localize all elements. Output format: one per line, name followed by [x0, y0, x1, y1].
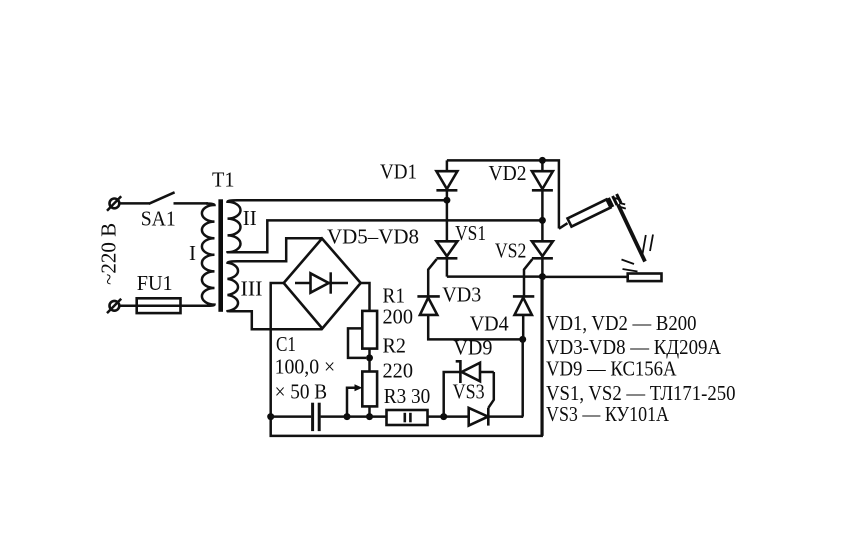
capacitor C1: [271, 403, 387, 431]
switch SA1: [149, 192, 175, 204]
thyristor VS3: [469, 408, 489, 426]
fuse FU1: [137, 298, 181, 313]
junction dot wiper/rail: [344, 413, 351, 420]
diode VD3: [417, 296, 439, 315]
R2 wiper arrow and stub to rail: [347, 384, 362, 416]
wire terminal-bottom to FU1: [119, 305, 137, 308]
R1 tap bracket: [348, 328, 366, 358]
wire R2 bottom to rail: [368, 406, 371, 416]
svg-text:VD5–VD8: VD5–VD8: [327, 225, 419, 249]
wire III-top to bridge AC1: [237, 238, 323, 261]
svg-text:100,0 ×: 100,0 ×: [275, 355, 336, 379]
electrode holder connector wire: [559, 223, 568, 229]
VS3 gate wire: [488, 372, 494, 408]
VS1 gate wire to VD3: [428, 259, 436, 296]
svg-text:220: 220: [383, 358, 414, 382]
svg-text:VD2: VD2: [489, 161, 527, 185]
terminal X2 bottom: [107, 299, 121, 313]
svg-text:SA1: SA1: [141, 207, 176, 231]
wire FU1 to T1 primary bottom: [181, 305, 209, 308]
junction dot bridge-minus / C1 rail: [267, 413, 274, 420]
transformer T1 core: [218, 199, 223, 311]
workpiece: [628, 274, 662, 282]
diode VD2: [532, 171, 553, 190]
svg-text:200: 200: [383, 304, 414, 328]
junction dot R2/rail: [366, 413, 373, 420]
wire R3 to VS3 anode: [428, 415, 469, 418]
wire SA1 to T1 primary: [174, 202, 209, 205]
svg-text:VS1: VS1: [455, 221, 486, 245]
junction dot VD9 branch: [440, 413, 447, 420]
transformer T1 secondary winding II: [228, 200, 241, 252]
thyristor VS2: [532, 241, 553, 258]
top rail VD1 anode to holder: [447, 160, 559, 228]
svg-text:I: I: [189, 241, 196, 265]
svg-text:C1: C1: [276, 332, 296, 356]
svg-text:T1: T1: [212, 168, 235, 192]
bridge inner diode symbol: [295, 272, 348, 293]
wire VS2 cathode to workpiece: [542, 276, 627, 279]
wire bridge DC+ right corner to R1: [361, 283, 370, 311]
wire VS1 cathode to VS2 cathode: [447, 275, 543, 278]
VS2 gate wire to VD4: [523, 259, 532, 296]
electrode holder body: [568, 199, 611, 226]
terminal X1 top (~220V input): [107, 196, 121, 210]
junction dot VD2 cathode / II-bottom wire: [539, 217, 546, 224]
svg-text:VD3-VD8 — КД209А: VD3-VD8 — КД209А: [546, 335, 722, 359]
junction dot R1/R2: [366, 354, 373, 361]
wire R1 bottom to R2 top: [368, 349, 371, 372]
wire VD2/VS2 column: [541, 160, 544, 436]
diode VD1: [436, 171, 457, 190]
wire terminal-top to SA1: [119, 202, 149, 205]
wire VD1/VS1 column: [446, 160, 449, 276]
svg-text:VD3: VD3: [442, 282, 481, 306]
svg-text:VD1, VD2 — В200: VD1, VD2 — В200: [546, 311, 697, 335]
transformer T1 primary winding I: [202, 204, 215, 306]
svg-text:VS3: VS3: [453, 379, 485, 403]
diode VD4: [513, 296, 534, 339]
svg-text:VD9 — КС156А: VD9 — КС156А: [546, 357, 677, 381]
junction dot VD2 top rail: [539, 157, 546, 164]
wire VD4 column down to VS3 cathode rail: [521, 339, 524, 416]
junction dot VD1 cathode / II-top: [443, 197, 450, 204]
zener diode VD9 with loop from rail: [444, 361, 494, 416]
wire III-bottom to bridge AC2: [237, 311, 323, 329]
svg-text:VD4: VD4: [470, 311, 509, 335]
wire VS3 cathode to VD4 column: [488, 415, 523, 418]
clamp teeth ticks: [615, 198, 626, 209]
wire II-top to VD1 cathode node: [237, 199, 447, 202]
svg-text:VD1: VD1: [380, 160, 417, 184]
svg-text:II: II: [243, 206, 257, 230]
welding electrode: [618, 205, 645, 262]
wire II-bottom to VD2/VS2 node: [237, 220, 543, 252]
svg-text:III: III: [241, 277, 263, 301]
svg-text:R2: R2: [383, 333, 407, 357]
svg-text:FU1: FU1: [137, 271, 173, 295]
svg-text:R3 30: R3 30: [384, 384, 431, 408]
svg-text:VS2: VS2: [495, 238, 527, 262]
svg-text:~220 В: ~220 В: [97, 223, 121, 285]
thyristor VS1: [436, 241, 457, 258]
resistor R1: [362, 311, 377, 349]
resistor R3: [387, 410, 428, 425]
svg-text:VS3 — КУ101А: VS3 — КУ101А: [546, 402, 670, 426]
wire VD3 bottom rail to VD4/VS3 column: [428, 315, 523, 340]
electrode holder clamp hatches: [609, 194, 622, 207]
wire bridge DC- : left corner down, bottom line, up to VS2 cathode node: [271, 280, 542, 436]
bridge rectifier VD5-VD8: [284, 239, 361, 329]
junction dot VS2 cathode node: [539, 273, 546, 280]
arc spark lines: [622, 235, 654, 272]
svg-text:× 50 В: × 50 В: [275, 380, 328, 404]
transformer T1 secondary winding III: [228, 261, 239, 311]
resistor R2 (variable): [362, 372, 377, 407]
junction dot VD4/VS3 column: [519, 336, 526, 343]
